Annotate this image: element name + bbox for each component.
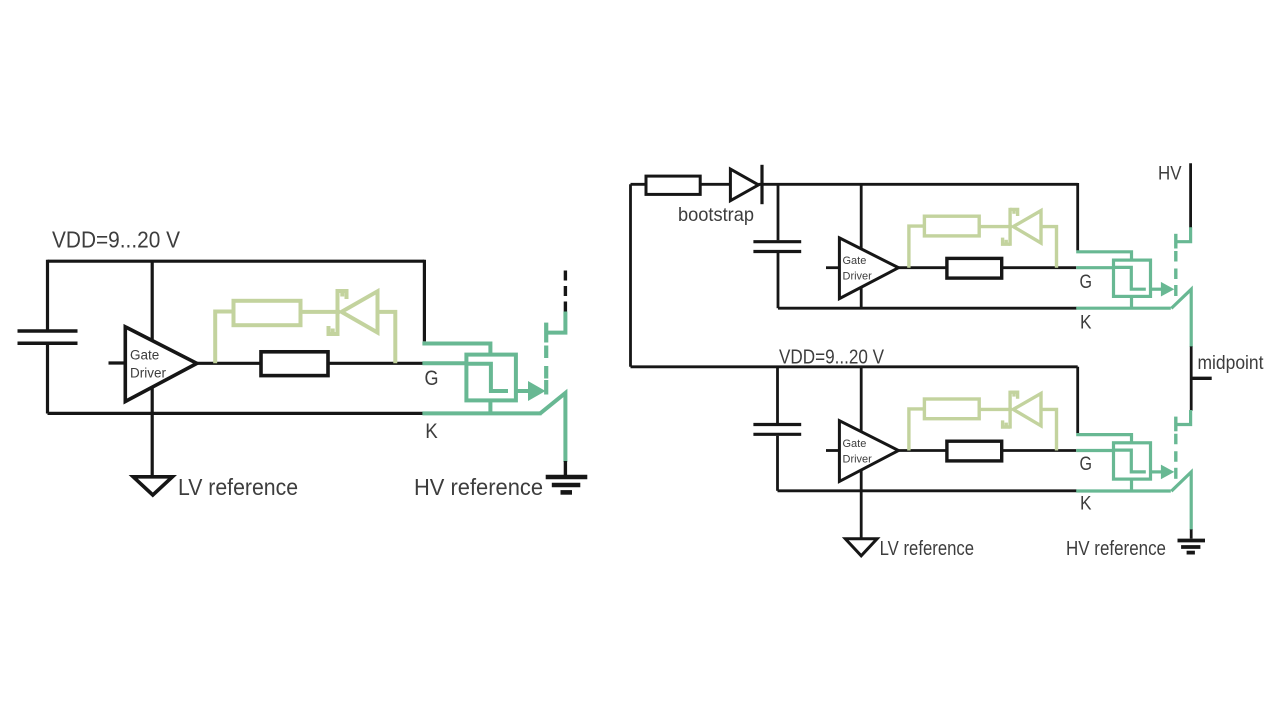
wire: gate-unit output (left) (516, 389, 529, 393)
ground: LV reference triangle (left) (133, 477, 172, 495)
resistor R5 feedback resistor (pale green, upper) (924, 216, 979, 236)
wire: dashed continuation above Q1 (left) (564, 268, 567, 312)
arrow: gate drive arrow into transistor (lower) (1161, 465, 1174, 480)
wire: upper K rail (black) (778, 307, 1077, 310)
wire: gate-unit output (upper) (1151, 288, 1162, 291)
svg-text:VDD=9...20 V: VDD=9...20 V (52, 227, 181, 253)
wire: upper mid vertical through driver (860, 184, 863, 308)
wire: driver input stub (upper) (826, 266, 839, 269)
svg-text:VDD=9...20 V: VDD=9...20 V (779, 345, 884, 368)
svg-text:K: K (1080, 313, 1092, 334)
wire: bootstrap resistor to diode (700, 183, 731, 186)
svg-text:G: G (1080, 454, 1093, 475)
svg-text:LV reference: LV reference (880, 538, 975, 560)
wire: gate-unit bottom stub to K (upper) (1130, 296, 1133, 308)
wire: feedback resistor to zener (pale green, lower) (979, 408, 1012, 411)
svg-text:Gate: Gate (843, 438, 867, 450)
svg-text:Driver: Driver (843, 271, 873, 283)
wire: upper left vertical to capacitor C2 (777, 183, 780, 240)
gate-unit step symbol (upper) (1114, 267, 1146, 289)
transistor Q2 source diagonal and down lead (teal, upper) (1171, 289, 1191, 347)
diode D2 bootstrap diode (730, 169, 758, 201)
resistor R1 gate resistor (left) (261, 352, 328, 376)
wire: driver output to G (upper, black) (899, 266, 1077, 269)
wire: feedback resistor to zener (pale green, left) (301, 310, 340, 314)
wire: driver input stub (left) (109, 361, 126, 364)
resistor R4 gate resistor (upper) (947, 258, 1002, 278)
svg-text:G: G (425, 367, 439, 390)
op-amp U5 gate driver triangle (lower) (839, 421, 898, 482)
capacitor C3 (lower) (753, 425, 801, 435)
wire: teal K wire (lower) (1076, 489, 1171, 492)
transistor Q2 channel (teal dashed, upper) (1174, 234, 1177, 296)
wire: capacitor C2 to upper K rail (777, 253, 780, 308)
svg-text:HV reference: HV reference (414, 474, 543, 500)
wire: teal drain feed to gate-unit top (left) (422, 344, 490, 356)
svg-text:Driver: Driver (130, 365, 167, 380)
wire: upper VDD rail (759, 183, 1078, 186)
wire: capacitor C1 bottom to K rail (46, 345, 49, 414)
diode D3 zener cathode bar with hooks (upper) (1003, 208, 1018, 246)
diode D2 cathode bar (760, 165, 763, 204)
gate-unit step symbol (lower) (1114, 450, 1146, 472)
wire: midpoint vertical (black) (1190, 346, 1193, 410)
transistor Q1 channel (teal dashed, left) (544, 323, 548, 395)
wire: mid vertical VDD to LV reference (left) (151, 261, 154, 477)
svg-text:Driver: Driver (843, 454, 873, 466)
op-amp U3 gate driver triangle (upper) (839, 238, 898, 299)
svg-text:Gate: Gate (130, 348, 159, 363)
svg-text:Gate: Gate (843, 255, 867, 267)
capacitor C1 (left buffer cap) (18, 331, 78, 343)
wire: lower right vertical from rail (1076, 367, 1079, 433)
transistor Q3 channel (teal dashed, lower) (1174, 417, 1177, 479)
diode D3 zener triangle (upper) (1013, 211, 1041, 243)
wire: teal drain feed to gate-unit top (lower) (1076, 435, 1131, 444)
resistor R7 feedback resistor (pale green, lower) (924, 399, 979, 419)
wire: bottom K rail (left) (48, 412, 423, 415)
diode D1 zener triangle (pale green, left) (342, 291, 378, 332)
svg-text:midpoint: midpoint (1198, 352, 1265, 374)
wire: gate-unit bottom stub to K (lower) (1130, 479, 1133, 491)
wire: lower K rail (black) (778, 489, 1077, 492)
wire: teal G wire into gate-unit (upper) (1076, 266, 1114, 269)
wire: feedback tap vertical (pale green, lower) (909, 409, 925, 451)
svg-text:HV: HV (1158, 163, 1182, 185)
wire: Q1 source to HV reference ground (black, left) (564, 461, 567, 476)
arrow: gate drive arrow into transistor (upper) (1161, 282, 1174, 297)
capacitor C2 (upper) (753, 242, 801, 252)
wire: capacitor C3 to lower K rail (776, 436, 779, 491)
wire: teal G wire into gate-unit (lower) (1076, 449, 1114, 452)
wire: teal G wire into gate-unit (left) (422, 361, 467, 365)
wire: driver output to G (lower, black) (899, 449, 1077, 452)
wire: left vertical to capacitor C1 (left) (46, 260, 49, 330)
wire: upper right vertical from rail (1076, 183, 1079, 251)
svg-text:G: G (1080, 272, 1093, 293)
wire: lower left vertical to capacitor C3 (776, 367, 779, 424)
diode D4 zener triangle (lower) (1013, 393, 1041, 425)
transistor Q1 drain lead (teal, left) (546, 312, 565, 333)
wire: feedback tap vertical (pale green, left) (215, 312, 233, 364)
diode D4 zener cathode bar with hooks (lower) (1003, 391, 1018, 429)
resistor R6 gate resistor (lower) (947, 441, 1002, 461)
svg-text:HV reference: HV reference (1066, 538, 1166, 560)
wire: VDD top rail (left) (48, 260, 425, 263)
wire: HV line (black, upper) (1189, 163, 1192, 227)
wire: lower VDD rail (631, 365, 1078, 368)
wire: driver input stub (lower) (826, 449, 839, 452)
node midpoint tick (1191, 377, 1212, 380)
ground: HV reference earth symbol (left) (546, 477, 588, 492)
wire: zener anode down to G wire (pale green, left) (378, 312, 396, 363)
wire: lower mid vertical to LV reference (860, 367, 863, 540)
transistor Q3 drain lead (teal, lower) (1176, 410, 1191, 425)
resistor R2 feedback resistor (pale green, left) (234, 301, 301, 325)
wire: zener anode down to G wire (lower) (1041, 409, 1057, 450)
svg-text:K: K (1080, 494, 1092, 515)
gate-unit step symbol (left) (466, 364, 508, 391)
op-amp U1 gate driver triangle (left) (125, 327, 197, 402)
svg-text:LV reference: LV reference (178, 474, 298, 500)
resistor R3 bootstrap resistor (646, 176, 700, 194)
gate-unit box U4 (teal, upper) (1114, 260, 1151, 296)
arrow: gate drive arrow into transistor (left) (528, 381, 546, 401)
gate-unit box U6 (teal, lower) (1114, 443, 1151, 479)
gate-unit box U2 (teal, left) (466, 355, 516, 401)
transistor Q2 drain lead (teal, upper) (1176, 227, 1191, 242)
transistor Q1 source diagonal and down lead (teal, left) (540, 393, 565, 462)
wire: bootstrap input + tall left vertical (631, 184, 647, 366)
wire: feedback tap vertical (pale green, upper) (909, 226, 925, 268)
wire: zener anode down to G wire (upper) (1041, 227, 1057, 268)
ground: LV reference triangle (right) (845, 539, 877, 556)
wire: gate-unit output (lower) (1151, 470, 1162, 473)
wire: teal K wire (left) (422, 411, 541, 415)
transistor Q3 source diagonal and down lead (teal, lower) (1171, 472, 1191, 530)
wire: right vertical from top rail (left) (423, 260, 426, 342)
wire: Q3 source to HV reference ground (black, lower) (1190, 529, 1193, 538)
wire: driver output to G (left, black part) (197, 362, 423, 365)
diode D1 zener cathode bar with hooks (pale green, left) (329, 289, 347, 336)
svg-text:K: K (425, 420, 438, 443)
ground: HV reference earth symbol (right) (1178, 541, 1206, 553)
wire: gate-unit bottom stub to K (left) (488, 400, 492, 413)
wire: teal drain feed to gate-unit top (upper) (1076, 252, 1131, 261)
svg-text:bootstrap: bootstrap (678, 204, 754, 226)
wire: teal K wire (upper) (1076, 307, 1171, 310)
wire: feedback resistor to zener (pale green, upper) (979, 225, 1012, 228)
